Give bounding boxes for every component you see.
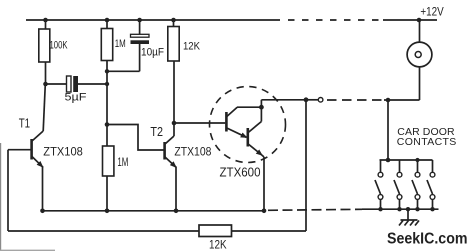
svg-text:CONTACTS: CONTACTS — [397, 136, 457, 148]
svg-text:T1: T1 — [19, 117, 30, 131]
svg-text:T2: T2 — [150, 124, 163, 139]
svg-text:5µF: 5µF — [65, 92, 87, 104]
svg-text:ZTX108: ZTX108 — [43, 145, 83, 159]
svg-text:12K: 12K — [183, 40, 201, 52]
svg-text:+12V: +12V — [420, 6, 444, 18]
svg-text:1M: 1M — [115, 38, 126, 50]
svg-text:12K: 12K — [209, 237, 227, 251]
svg-text:10µF: 10µF — [141, 46, 164, 58]
svg-text:ZTX108: ZTX108 — [174, 145, 211, 159]
svg-text:ZTX600: ZTX600 — [220, 165, 261, 180]
svg-text:1M: 1M — [117, 155, 128, 169]
svg-text:100K: 100K — [50, 40, 69, 52]
svg-text:SeekIC.com: SeekIC.com — [387, 231, 468, 248]
